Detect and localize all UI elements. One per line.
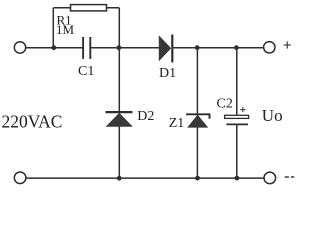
svg-text:D1: D1 — [159, 66, 176, 81]
svg-text:Uo: Uo — [262, 106, 283, 125]
node junction — [195, 176, 200, 181]
wire — [26, 177, 264, 179]
wire — [236, 48, 238, 116]
wire — [118, 8, 120, 48]
resistor R1 — [71, 5, 107, 11]
diode D2 — [106, 112, 133, 126]
svg-text:220VAC: 220VAC — [2, 111, 63, 131]
svg-text:C2: C2 — [217, 97, 233, 112]
terminal output plus — [264, 42, 275, 53]
wire — [53, 7, 119, 9]
label + — [240, 107, 245, 112]
wire — [236, 124, 238, 178]
wire — [118, 48, 120, 112]
terminal output minus — [264, 172, 276, 184]
svg-text:1M: 1M — [56, 22, 75, 37]
node junction — [117, 45, 122, 50]
wire — [90, 47, 159, 49]
diode D1 — [159, 35, 172, 63]
zener Z1 — [186, 114, 209, 127]
terminal AC input top — [14, 42, 25, 53]
node junction — [117, 176, 122, 181]
svg-text:C1: C1 — [78, 64, 94, 79]
node junction — [235, 176, 240, 181]
wire — [173, 47, 263, 49]
node junction — [195, 45, 200, 50]
node junction — [51, 45, 56, 50]
wire — [118, 126, 120, 178]
svg-text:D2: D2 — [137, 109, 154, 124]
node junction — [234, 45, 239, 50]
wire — [26, 47, 83, 49]
terminal AC input bottom — [14, 172, 26, 184]
wire — [196, 48, 198, 115]
wire — [52, 8, 54, 48]
label minus — [285, 176, 295, 178]
label + — [284, 41, 291, 48]
capacitor C1 — [83, 37, 90, 59]
wire — [196, 127, 198, 178]
svg-text:Z1: Z1 — [169, 116, 185, 131]
capacitor C2 — [225, 115, 249, 124]
